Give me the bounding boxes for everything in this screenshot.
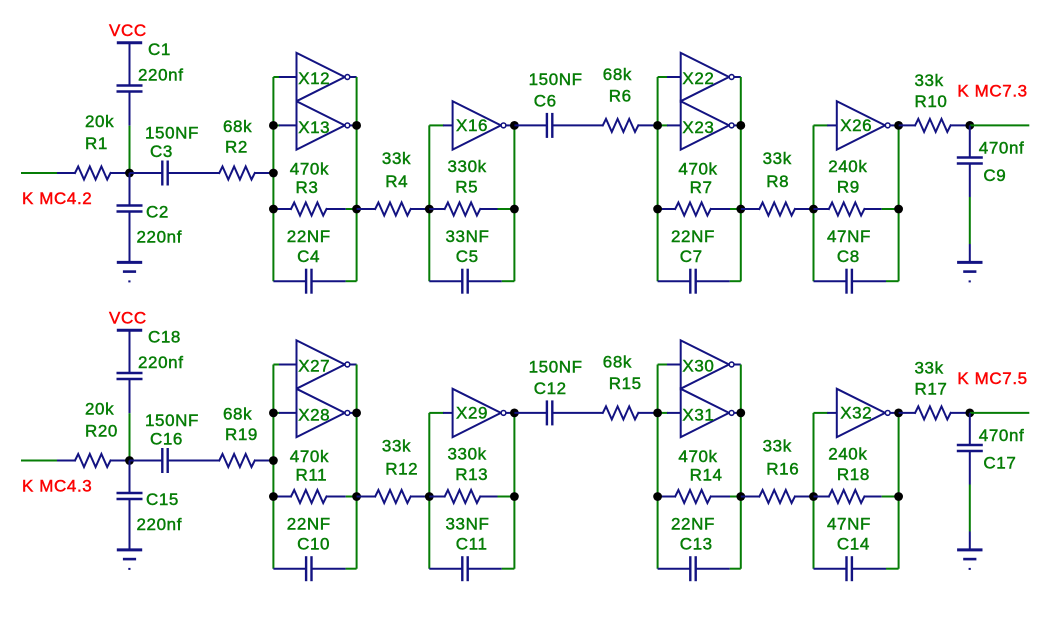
wire C9 to ground [969,164,971,198]
svg-text:C6: C6 [534,92,557,111]
node R16/R18 junction [809,492,818,501]
svg-text:K MC4.3: K MC4.3 [22,477,92,496]
svg-text:R3: R3 [296,178,319,197]
svg-text:470k: 470k [290,447,329,466]
svg-text:R12: R12 [385,460,418,479]
wire stage3 input rail [657,365,659,569]
capacitor C10 22NF (feedback) [273,568,306,570]
op-amp inverter X13 [297,101,345,149]
wire stage3 input rail [657,77,659,281]
node X23 output junction [736,121,745,130]
node X29 output junction [510,409,519,418]
capacitor C15 220nf (to ground) [117,492,143,494]
resistor R7 470k (feedback) [658,208,676,210]
resistor R8 33k [741,208,760,210]
svg-text:33k: 33k [763,437,792,456]
node X32 output junction [894,409,903,418]
svg-text:470k: 470k [678,447,717,466]
svg-text:C14: C14 [837,535,870,554]
op-amp inverter X32 [837,389,885,437]
wire X29 output [506,412,514,414]
capacitor C12 150NF (coupling) [514,412,547,414]
svg-text:C9: C9 [983,166,1006,185]
op-amp inverter X31 [681,389,729,437]
svg-text:68k: 68k [223,405,252,424]
wire C6 to R6 [552,124,603,126]
resistor R18 240k (feedback) [814,496,829,498]
op-amp inverter X22 [681,53,729,101]
node R9 right [894,205,903,214]
svg-text:33k: 33k [915,71,944,90]
wire X13 output [350,124,357,126]
svg-text:X12: X12 [298,69,330,88]
wire output stub [970,412,1030,414]
svg-text:68k: 68k [223,117,252,136]
resistor R10 33k (output) [899,124,916,126]
svg-text:C10: C10 [297,535,330,554]
wire to X30 input [658,364,668,366]
op-amp inverter X28 [297,389,345,437]
wire junction to C2 [129,173,131,206]
node R3 left [269,205,278,214]
svg-text:150NF: 150NF [529,70,583,89]
wire stage4 input rail [813,125,815,281]
capacitor C2 220nf (to ground) [117,204,143,206]
resistor R20 20k [75,454,111,467]
wire C17 to ground [969,451,971,485]
node X13 input junction [269,121,278,130]
node R4/R5 junction [425,205,434,214]
op-amp inverter X27 [297,340,345,388]
resistor R12 33k [357,496,376,498]
resistor R14 470k (feedback) [658,496,676,498]
wire input stub [21,460,57,462]
svg-text:220nf: 220nf [137,228,183,247]
svg-text:R6: R6 [609,87,632,106]
svg-text:220nf: 220nf [137,515,183,534]
capacitor C5 33NF (feedback) [429,280,462,282]
svg-text:22NF: 22NF [287,515,331,534]
svg-text:C1: C1 [148,40,171,59]
wire output stub [970,124,1030,126]
svg-text:22NF: 22NF [287,227,331,246]
svg-text:20k: 20k [85,112,114,131]
ground below C2 [117,261,142,264]
resistor R3 470k (feedback) [273,208,291,210]
svg-text:150NF: 150NF [145,124,199,143]
wire stage2 output rail [513,413,515,569]
svg-text:X26: X26 [840,116,872,135]
resistor R1 20k [75,167,111,180]
wire C15 to ground [129,499,131,550]
resistor R5 330k (feedback) [429,208,444,210]
op-amp inverter X16 [453,101,501,149]
svg-text:R2: R2 [225,138,248,157]
svg-text:R10: R10 [915,92,948,111]
wire X22 output [734,76,741,78]
svg-text:C17: C17 [983,454,1016,473]
capacitor C3 150NF (series) [130,172,163,174]
resistor R15 68k [603,406,639,419]
capacitor C8 47NF (feedback) [814,280,847,282]
capacitor C1 220nf (VCC decoupling) [117,84,143,86]
svg-text:33k: 33k [382,437,411,456]
wire stage1 output rail [356,365,358,569]
svg-text:K MC7.3: K MC7.3 [957,82,1027,101]
svg-text:470nf: 470nf [979,426,1025,445]
node R12/R13 junction [425,492,434,501]
wire X26 output [890,124,898,126]
svg-text:C15: C15 [146,490,179,509]
wire to X29 input [429,412,444,414]
resistor R2 68k [219,167,255,180]
wire VCC to C1 [129,43,131,86]
svg-text:X32: X32 [840,404,872,423]
resistor R13 330k (feedback) [429,496,444,498]
wire stage4 output rail [898,413,900,569]
node X16 output junction [510,121,519,130]
op-amp inverter X29 [453,389,501,437]
svg-text:X28: X28 [298,406,330,425]
svg-text:470k: 470k [678,160,717,179]
svg-text:R5: R5 [455,178,478,197]
wire to X32 input [814,412,829,414]
svg-text:33NF: 33NF [446,515,490,534]
node R8/R9 junction [809,205,818,214]
svg-text:R4: R4 [385,172,408,191]
node R2 output on rail [269,169,278,178]
wire stage3 output rail [740,77,742,281]
svg-text:33NF: 33NF [446,227,490,246]
node output junction R17/C17 [965,409,974,418]
wire to X27 input [273,364,280,366]
capacitor C4 22NF (feedback) [273,280,306,282]
wire X32 output [890,412,898,414]
svg-text:X16: X16 [456,116,488,135]
wire stage3 output rail [740,365,742,569]
op-amp inverter X26 [837,101,885,149]
wire X12 output [350,76,357,78]
ground below C15 [117,548,142,551]
node input junction R1/C1/C2/C3 [125,169,134,178]
wire to X16 input [429,124,444,126]
wire junction to C15 [129,461,131,494]
svg-text:R13: R13 [455,465,488,484]
wire X16 output [506,124,514,126]
svg-text:K MC4.2: K MC4.2 [22,189,92,208]
resistor R11 470k (feedback) [273,496,291,498]
node X31 output junction [736,409,745,418]
svg-text:33k: 33k [382,149,411,168]
svg-text:C12: C12 [534,379,567,398]
svg-text:68k: 68k [603,65,632,84]
capacitor C9 470nf (to ground) [969,125,971,157]
wire X27 output [350,364,357,366]
wire stage1 input rail [272,77,274,281]
capacitor C6 150NF (coupling) [514,124,547,126]
svg-text:X29: X29 [456,404,488,423]
svg-text:22NF: 22NF [671,227,715,246]
node X28 input junction [269,409,278,418]
op-amp inverter X12 [297,53,345,101]
svg-text:470nf: 470nf [979,139,1025,158]
power symbol VCC rail for C1 [117,41,142,44]
wire C1 to input node [129,92,131,126]
resistor R16 33k [741,496,760,498]
svg-text:R1: R1 [85,134,108,153]
capacitor C13 22NF (feedback) [658,568,691,570]
node X31 input junction [653,409,662,418]
svg-text:K MC7.5: K MC7.5 [957,369,1027,388]
capacitor C17 470nf (to ground) [969,413,971,445]
wire stage1 input rail [272,365,274,569]
node R18 right [894,492,903,501]
svg-text:C2: C2 [146,203,169,222]
node R7 left [653,205,662,214]
svg-text:R11: R11 [296,466,328,485]
svg-text:220nf: 220nf [138,353,184,372]
svg-text:X22: X22 [682,69,714,88]
node R7 right [736,205,745,214]
svg-text:C13: C13 [680,535,713,554]
wire stage1 output rail [356,77,358,281]
svg-text:VCC: VCC [109,309,147,328]
resistor R19 68k [219,454,255,467]
resistor R17 33k (output) [899,412,916,414]
wire to X13 input [273,124,280,126]
capacitor C14 47NF (feedback) [814,568,847,570]
node R13 right [510,492,519,501]
svg-text:33k: 33k [763,149,792,168]
resistor R6 68k [603,119,639,132]
svg-text:R19: R19 [225,425,258,444]
svg-text:R9: R9 [837,178,860,197]
op-amp inverter X30 [681,340,729,388]
wire C12 to R15 [552,412,603,414]
svg-text:R18: R18 [837,465,870,484]
svg-text:X13: X13 [298,118,330,137]
svg-text:22NF: 22NF [671,515,715,534]
node R14 right [736,492,745,501]
resistor R4 33k [357,208,376,210]
wire to X31 input [658,412,668,414]
node R14 left [653,492,662,501]
svg-text:C11: C11 [456,535,488,554]
svg-text:150NF: 150NF [529,358,583,377]
wire C2 to ground [129,212,131,263]
svg-text:240k: 240k [828,157,867,176]
node R3 right [352,205,361,214]
svg-text:20k: 20k [85,400,114,419]
svg-text:C3: C3 [150,142,173,161]
wire to X28 input [273,412,280,414]
wire to X22 input [658,76,668,78]
svg-text:R17: R17 [915,380,948,399]
capacitor C18 220nf (VCC decoupling) [117,372,143,374]
wire stage4 output rail [898,125,900,281]
svg-text:C16: C16 [150,430,183,449]
svg-text:33k: 33k [915,359,944,378]
wire X31 output [734,412,741,414]
node X26 output junction [894,121,903,130]
svg-text:470k: 470k [290,160,329,179]
svg-text:C18: C18 [148,328,181,347]
wire C3 to R2 [168,172,220,174]
wire stage4 input rail [813,413,815,569]
svg-text:X31: X31 [682,406,714,425]
svg-text:R14: R14 [690,466,723,485]
svg-text:X27: X27 [298,357,330,376]
wire X28 output [350,412,357,414]
svg-text:47NF: 47NF [827,227,871,246]
svg-text:C5: C5 [456,247,479,266]
wire C16 to R19 [168,460,220,462]
svg-text:47NF: 47NF [827,515,871,534]
power symbol VCC rail for C18 [117,329,142,332]
capacitor C16 150NF (series) [130,460,163,462]
node input junction R20/C18/C15/C16 [125,456,134,465]
capacitor C11 33NF (feedback) [429,568,462,570]
svg-text:220nf: 220nf [138,66,184,85]
wire stage2 input rail [428,125,430,281]
wire X23 output [734,124,741,126]
ground below C9 [957,261,982,264]
svg-text:R20: R20 [85,422,118,441]
capacitor C7 22NF (feedback) [658,280,691,282]
svg-text:330k: 330k [448,157,487,176]
node R11 right [352,492,361,501]
resistor R9 240k (feedback) [814,208,829,210]
svg-text:VCC: VCC [109,21,147,40]
svg-text:330k: 330k [448,445,487,464]
svg-text:240k: 240k [828,445,867,464]
svg-text:R7: R7 [690,178,713,197]
wire X30 output [734,364,741,366]
svg-text:X23: X23 [682,118,714,137]
wire stage2 input rail [428,413,430,569]
svg-text:C8: C8 [837,247,860,266]
wire input stub [21,172,57,174]
node X23 input junction [653,121,662,130]
wire C18 to input node [129,379,131,413]
svg-text:R15: R15 [609,374,642,393]
ground below C17 [957,548,982,551]
node R19 output on rail [269,456,278,465]
svg-text:R8: R8 [766,172,789,191]
node output junction R10/C9 [965,121,974,130]
svg-text:R16: R16 [766,460,799,479]
node X13 output junction [352,121,361,130]
op-amp inverter X23 [681,101,729,149]
node R5 right [510,205,519,214]
wire to X12 input [273,76,280,78]
svg-text:X30: X30 [682,357,714,376]
svg-text:150NF: 150NF [145,411,199,430]
node X28 output junction [352,409,361,418]
wire stage2 output rail [513,125,515,281]
node R11 left [269,492,278,501]
wire to X23 input [658,124,668,126]
svg-text:C4: C4 [297,247,320,266]
svg-text:68k: 68k [603,353,632,372]
svg-text:C7: C7 [680,247,703,266]
wire VCC to C18 [129,330,131,373]
wire to X26 input [814,124,829,126]
